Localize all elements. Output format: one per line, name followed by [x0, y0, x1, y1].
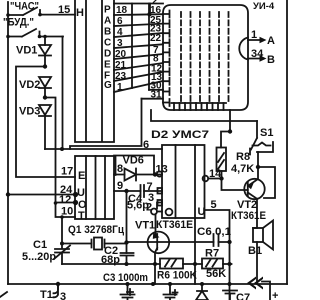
svg-text:3: 3: [117, 38, 123, 49]
svg-text:22: 22: [150, 33, 162, 44]
svg-text:18: 18: [116, 5, 128, 16]
svg-text:68p: 68p: [101, 254, 120, 266]
svg-text:A: A: [267, 35, 275, 47]
svg-text:6: 6: [143, 139, 149, 151]
svg-text:9: 9: [117, 180, 123, 192]
svg-text:B1: B1: [248, 245, 262, 257]
svg-text:R7: R7: [205, 248, 219, 260]
svg-text:C7: C7: [236, 292, 250, 300]
svg-text:3: 3: [60, 291, 66, 300]
svg-text:31: 31: [151, 90, 163, 101]
svg-text:13: 13: [156, 164, 168, 176]
svg-text:E: E: [78, 170, 85, 182]
svg-text:12: 12: [59, 194, 71, 206]
svg-text:D2 УМС7: D2 УМС7: [151, 129, 209, 141]
svg-text:5: 5: [211, 199, 217, 211]
svg-text:21: 21: [115, 60, 127, 71]
svg-text:Q1 32768Гц: Q1 32768Гц: [68, 224, 124, 236]
svg-text:10: 10: [61, 206, 73, 218]
svg-text:VD2: VD2: [19, 79, 40, 91]
svg-text:1: 1: [117, 82, 123, 93]
svg-text:P: P: [104, 5, 111, 16]
svg-text:R8: R8: [236, 151, 250, 163]
svg-text:E: E: [104, 60, 111, 71]
svg-text:S1: S1: [260, 127, 273, 139]
svg-text:D: D: [104, 49, 111, 60]
svg-text:A: A: [104, 16, 111, 27]
svg-text:4,7K: 4,7K: [231, 163, 254, 175]
svg-text:B: B: [267, 54, 275, 66]
svg-text:56K: 56K: [206, 268, 226, 280]
svg-text:C1: C1: [33, 239, 47, 251]
svg-text:R6 100K: R6 100K: [157, 270, 197, 282]
svg-text:B: B: [104, 27, 111, 38]
svg-text:VD6: VD6: [123, 155, 144, 167]
svg-text:C3 1000m: C3 1000m: [103, 272, 148, 284]
svg-text:VD1: VD1: [16, 45, 37, 57]
svg-text:4: 4: [117, 27, 123, 38]
svg-text:КТ361Е: КТ361Е: [231, 210, 266, 222]
svg-text:"БУД.": "БУД.": [3, 17, 34, 29]
svg-text:15: 15: [58, 4, 70, 16]
svg-text:G: G: [104, 80, 112, 91]
svg-text:2: 2: [152, 0, 158, 7]
svg-text:VT1: VT1: [135, 220, 155, 232]
svg-text:T: T: [78, 210, 85, 222]
svg-text:VD3: VD3: [19, 106, 40, 118]
svg-text:"ЧАС": "ЧАС": [10, 1, 39, 13]
svg-text:2: 2: [146, 202, 152, 214]
svg-text:U: U: [77, 187, 85, 199]
svg-text:8: 8: [117, 163, 123, 175]
svg-text:20: 20: [115, 49, 127, 60]
svg-text:C: C: [104, 38, 111, 49]
svg-text:C6 0,1: C6 0,1: [197, 226, 231, 238]
svg-text:T1: T1: [40, 289, 53, 300]
svg-text:УИ-4: УИ-4: [253, 1, 275, 12]
svg-text:1: 1: [251, 29, 257, 41]
svg-text:U: U: [198, 206, 206, 218]
svg-text:17: 17: [61, 166, 73, 178]
svg-text:34: 34: [251, 48, 264, 60]
svg-text:23: 23: [115, 71, 127, 82]
svg-text:Н: Н: [76, 7, 84, 19]
svg-text:КТ361Е: КТ361Е: [156, 219, 193, 231]
svg-text:+: +: [272, 290, 278, 300]
svg-text:6: 6: [117, 16, 123, 27]
svg-text:5...20p: 5...20p: [22, 251, 56, 263]
svg-text:14: 14: [209, 168, 222, 180]
